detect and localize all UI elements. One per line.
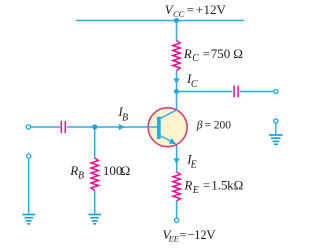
svg-text:IE: IE <box>186 151 197 170</box>
resistor RE <box>173 172 180 201</box>
current arrow IE <box>173 158 179 164</box>
current arrow IB <box>119 124 126 130</box>
wire input terminal to capacitor <box>31 126 61 128</box>
wire RB to ground <box>94 191 96 214</box>
wire rail to Rc <box>176 21 178 42</box>
svg-text:β=200: β=200 <box>196 120 232 132</box>
node base junction <box>92 124 97 129</box>
resistor RC <box>173 41 180 71</box>
wire RE to Vee terminal <box>176 201 178 218</box>
svg-text:RE=1.5kΩ: RE=1.5kΩ <box>183 178 243 197</box>
wire base node to RB <box>94 127 96 159</box>
output terminal <box>274 89 278 93</box>
transistor Q1 body <box>148 108 187 147</box>
current arrow IC <box>173 78 179 84</box>
capacitor C1 (input) <box>60 121 62 133</box>
wire Rc to collector node <box>176 71 178 93</box>
resistor RB <box>91 158 98 191</box>
svg-text:100Ω: 100Ω <box>103 163 130 178</box>
node Vcc junction <box>174 18 179 23</box>
transistor emitter arrow <box>169 138 177 144</box>
output ground terminal <box>274 119 278 123</box>
transistor base lead <box>147 126 157 128</box>
capacitor C2 (output) <box>233 86 235 98</box>
wire capacitor to output terminal <box>240 91 274 93</box>
svg-text:VEE=−12V: VEE=−12V <box>163 227 217 244</box>
wire input ground <box>28 159 30 214</box>
Vee terminal <box>175 218 179 222</box>
svg-text:IB: IB <box>117 104 128 123</box>
transistor emitter lead <box>160 136 171 142</box>
transistor collector lead <box>160 110 177 119</box>
wire Vcc rail <box>76 20 244 22</box>
svg-text:RB: RB <box>69 163 84 182</box>
node collector junction <box>174 89 179 94</box>
wire output ground <box>275 123 277 134</box>
svg-text:VCC=+12V: VCC=+12V <box>165 2 227 19</box>
ground (below RB) <box>88 215 101 224</box>
wire emitter down <box>176 145 178 173</box>
input ground terminal <box>27 154 31 158</box>
ground (input, bottom left) <box>22 215 35 224</box>
ground (output, right) <box>269 135 283 144</box>
wire collector node to output capacitor <box>177 91 233 93</box>
transistor base bar <box>157 117 161 139</box>
wire capacitor to base <box>67 126 157 128</box>
input terminal <box>26 125 30 129</box>
svg-text:RC=750Ω: RC=750Ω <box>183 46 243 64</box>
svg-text:IC: IC <box>186 71 198 90</box>
wire collector node to transistor <box>176 92 178 111</box>
